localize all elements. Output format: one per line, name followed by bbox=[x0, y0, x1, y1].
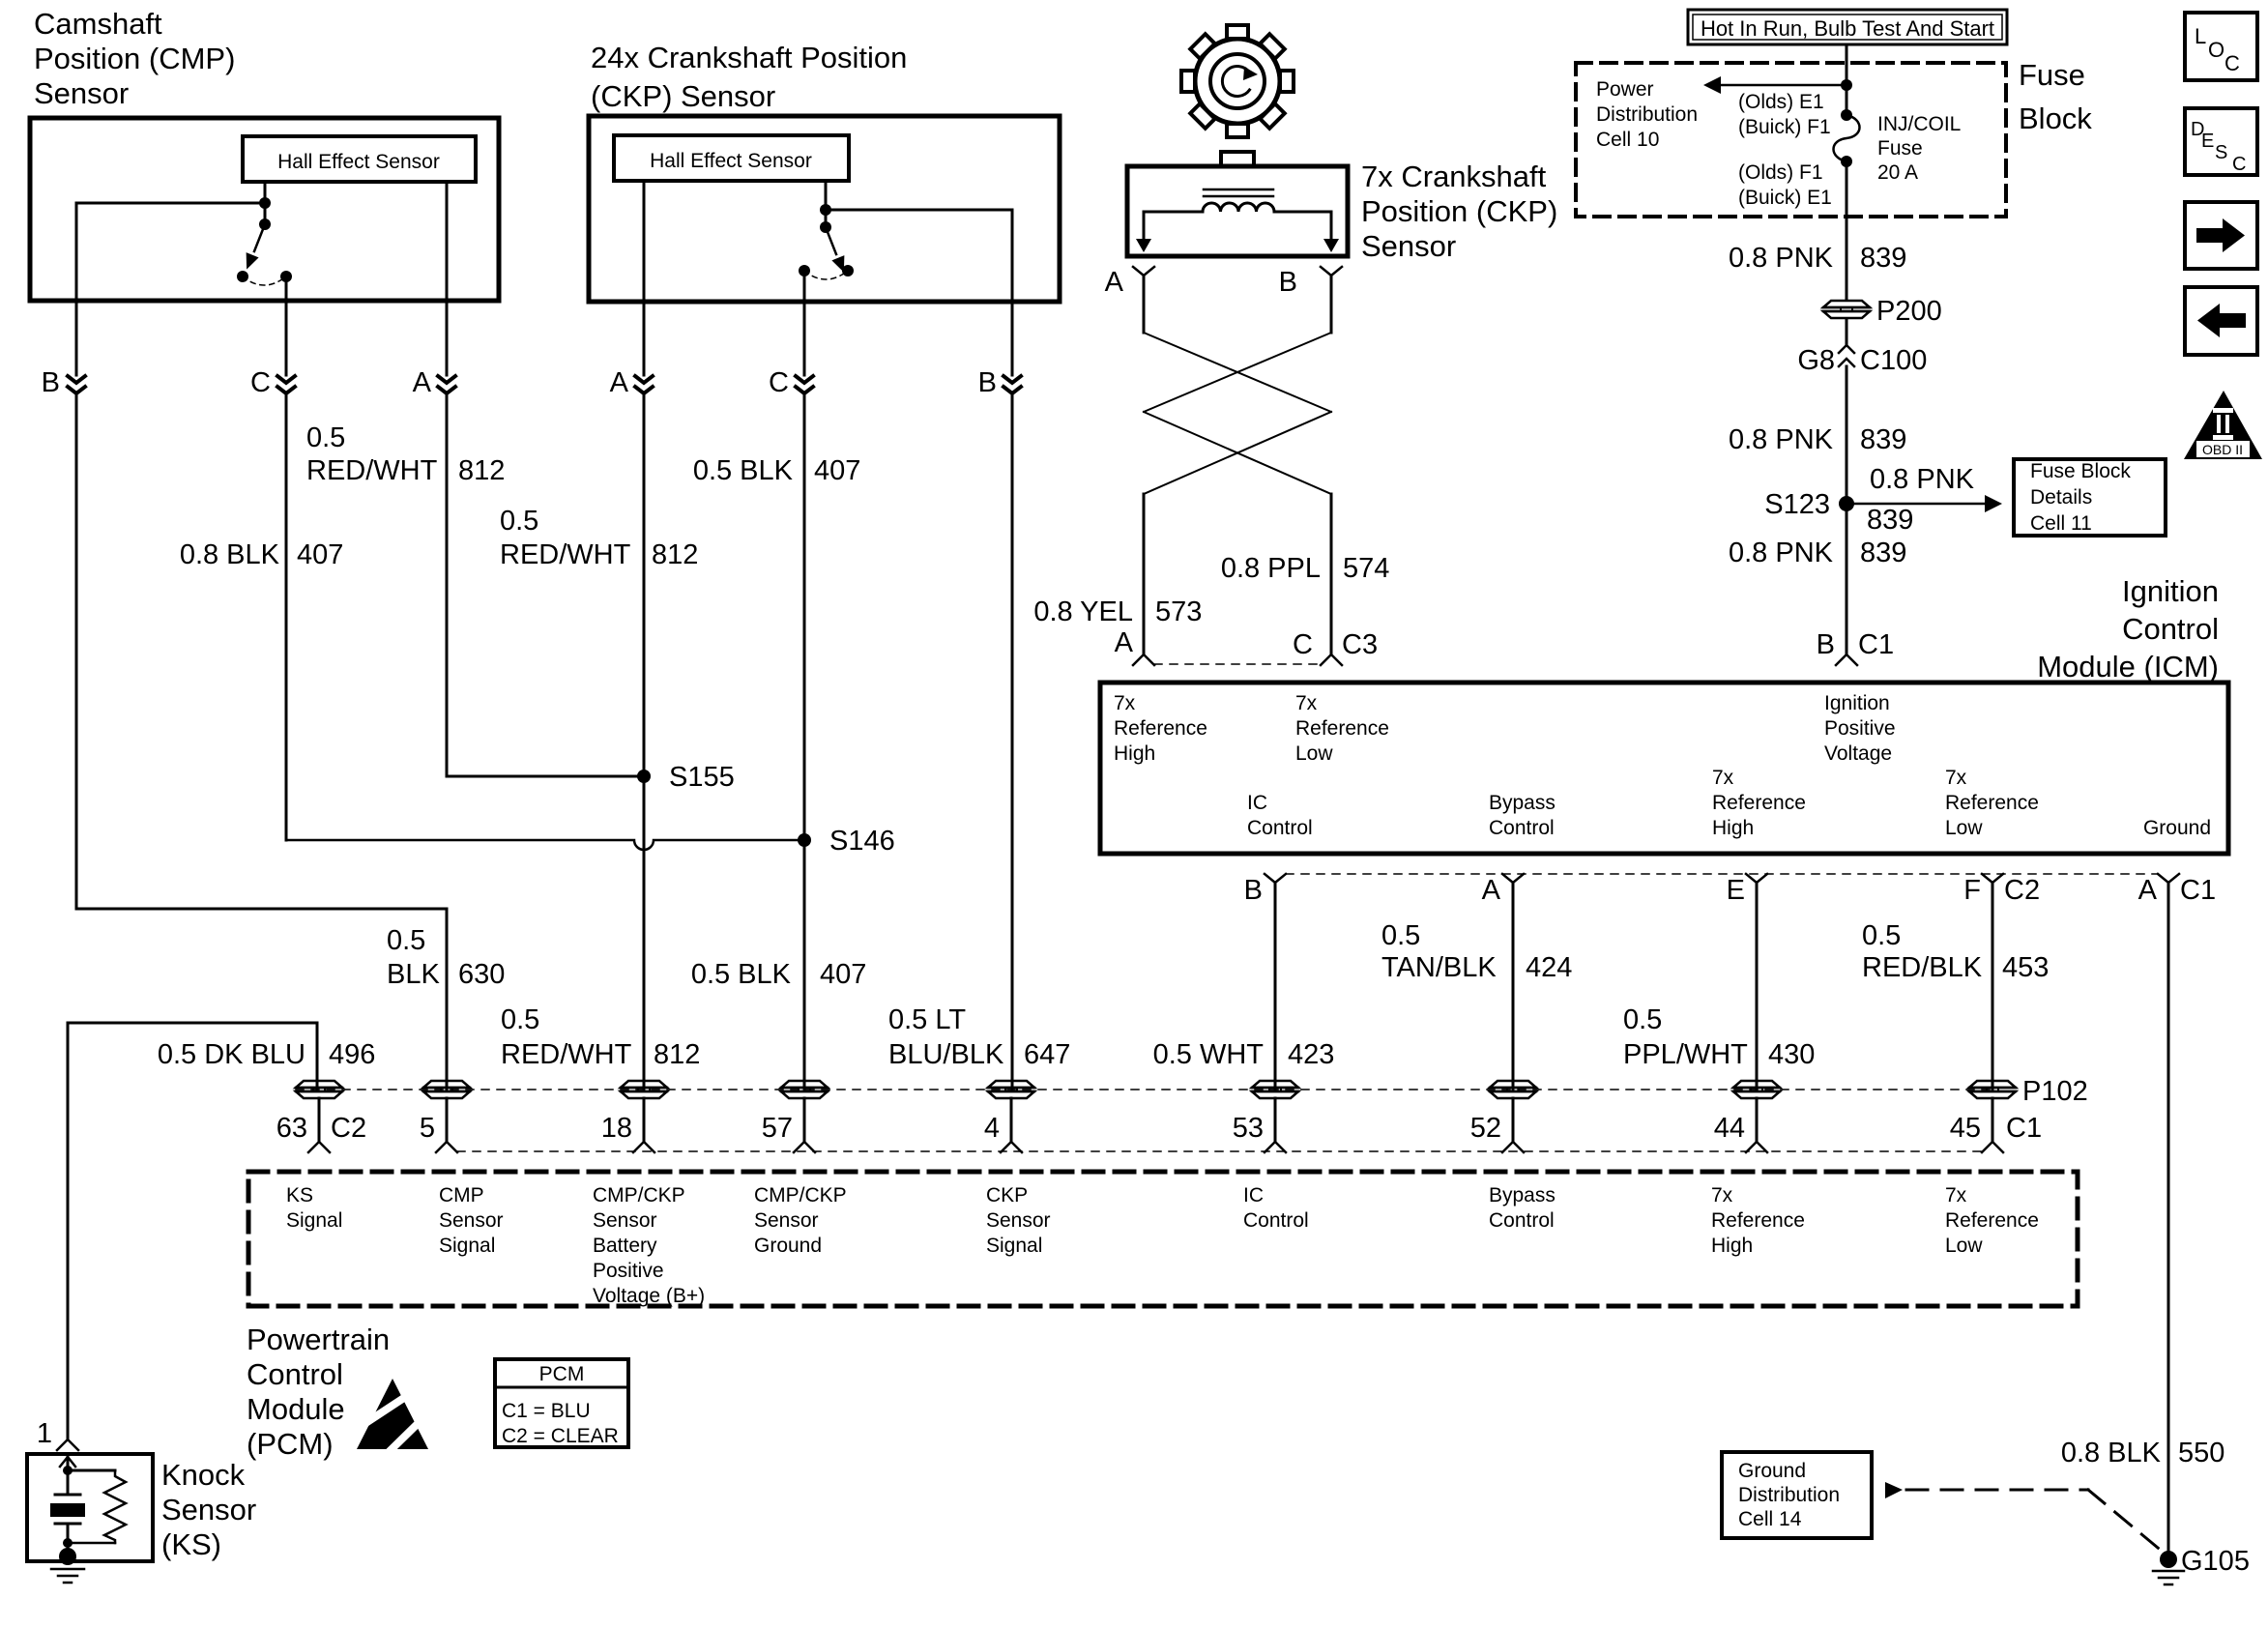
svg-text:Control: Control bbox=[1247, 817, 1313, 839]
svg-text:Details: Details bbox=[2030, 486, 2092, 509]
svg-text:C1: C1 bbox=[1858, 629, 1894, 660]
svg-text:407: 407 bbox=[814, 455, 860, 486]
svg-text:7x Crankshaft: 7x Crankshaft bbox=[1361, 160, 1547, 193]
svg-text:RED/WHT: RED/WHT bbox=[306, 455, 438, 486]
svg-text:Cell 14: Cell 14 bbox=[1738, 1508, 1802, 1530]
svg-text:CKP: CKP bbox=[986, 1184, 1028, 1206]
svg-text:TAN/BLK: TAN/BLK bbox=[1381, 952, 1497, 983]
svg-text:Voltage (B+): Voltage (B+) bbox=[593, 1285, 705, 1307]
svg-text:Low: Low bbox=[1295, 742, 1333, 765]
svg-text:630: 630 bbox=[458, 959, 505, 990]
svg-text:Control: Control bbox=[2122, 612, 2219, 646]
svg-text:0.5 LT: 0.5 LT bbox=[888, 1004, 966, 1035]
svg-text:0.5 WHT: 0.5 WHT bbox=[1153, 1039, 1265, 1070]
svg-text:0.5: 0.5 bbox=[306, 422, 345, 453]
svg-text:PPL/WHT: PPL/WHT bbox=[1623, 1039, 1748, 1070]
svg-text:INJ/COIL: INJ/COIL bbox=[1877, 113, 1961, 135]
svg-text:Control: Control bbox=[247, 1357, 343, 1391]
svg-text:0.5 DK BLU: 0.5 DK BLU bbox=[158, 1039, 305, 1070]
svg-text:550: 550 bbox=[2178, 1438, 2224, 1468]
svg-text:812: 812 bbox=[654, 1039, 700, 1070]
svg-text:453: 453 bbox=[2002, 952, 2049, 983]
svg-text:839: 839 bbox=[1867, 505, 1913, 536]
svg-text:C1: C1 bbox=[2006, 1113, 2042, 1144]
svg-text:Reference: Reference bbox=[1945, 792, 2039, 814]
svg-text:Reference: Reference bbox=[1711, 1209, 1805, 1232]
svg-text:Sensor: Sensor bbox=[161, 1493, 256, 1526]
svg-text:Ground: Ground bbox=[1738, 1460, 1806, 1482]
svg-text:S: S bbox=[2215, 142, 2227, 163]
svg-text:Reference: Reference bbox=[1114, 717, 1207, 740]
svg-text:Sensor: Sensor bbox=[1361, 229, 1456, 263]
svg-text:Distribution: Distribution bbox=[1596, 103, 1698, 126]
svg-text:839: 839 bbox=[1860, 243, 1906, 274]
svg-text:Positive: Positive bbox=[1824, 717, 1896, 740]
svg-text:BLK: BLK bbox=[387, 959, 440, 990]
svg-text:52: 52 bbox=[1470, 1113, 1501, 1144]
svg-text:F: F bbox=[1963, 875, 1981, 906]
svg-text:C: C bbox=[769, 367, 789, 398]
svg-text:(Buick) F1: (Buick) F1 bbox=[1738, 116, 1831, 138]
svg-text:L: L bbox=[2195, 24, 2206, 48]
svg-text:S155: S155 bbox=[669, 762, 735, 793]
svg-text:C2: C2 bbox=[2004, 875, 2040, 906]
svg-text:Control: Control bbox=[1489, 1209, 1555, 1232]
svg-text:Cell 10: Cell 10 bbox=[1596, 129, 1659, 151]
svg-text:Control: Control bbox=[1243, 1209, 1309, 1232]
svg-text:C2 = CLEAR: C2 = CLEAR bbox=[502, 1425, 619, 1447]
svg-text:Distribution: Distribution bbox=[1738, 1484, 1840, 1506]
svg-text:0.8 BLK: 0.8 BLK bbox=[2061, 1438, 2162, 1468]
svg-text:A: A bbox=[610, 367, 629, 398]
svg-text:Bypass: Bypass bbox=[1489, 792, 1556, 814]
svg-text:B: B bbox=[1817, 629, 1835, 660]
svg-text:0.8 PNK: 0.8 PNK bbox=[1729, 538, 1834, 568]
svg-text:0.5: 0.5 bbox=[501, 1004, 539, 1035]
svg-text:0.5: 0.5 bbox=[1623, 1004, 1662, 1035]
svg-text:496: 496 bbox=[329, 1039, 375, 1070]
svg-text:Power: Power bbox=[1596, 78, 1654, 101]
svg-text:407: 407 bbox=[820, 959, 866, 990]
svg-text:Hall Effect Sensor: Hall Effect Sensor bbox=[650, 150, 812, 172]
svg-text:A: A bbox=[1105, 267, 1124, 298]
svg-text:S123: S123 bbox=[1764, 489, 1830, 520]
svg-text:Sensor: Sensor bbox=[754, 1209, 819, 1232]
svg-text:812: 812 bbox=[652, 539, 698, 570]
svg-text:RED/WHT: RED/WHT bbox=[500, 539, 631, 570]
svg-text:IC: IC bbox=[1243, 1184, 1264, 1206]
svg-text:0.5: 0.5 bbox=[1862, 920, 1901, 951]
svg-text:Module: Module bbox=[247, 1392, 345, 1426]
svg-text:Hall Effect Sensor: Hall Effect Sensor bbox=[277, 151, 440, 173]
svg-text:High: High bbox=[1711, 1235, 1753, 1257]
svg-text:573: 573 bbox=[1155, 596, 1202, 627]
svg-text:KS: KS bbox=[286, 1184, 313, 1206]
svg-text:C2: C2 bbox=[331, 1113, 366, 1144]
svg-text:CMP/CKP: CMP/CKP bbox=[593, 1184, 685, 1206]
svg-text:B: B bbox=[1244, 875, 1263, 906]
svg-text:1: 1 bbox=[37, 1418, 52, 1449]
svg-text:Knock: Knock bbox=[161, 1458, 246, 1492]
svg-text:BLU/BLK: BLU/BLK bbox=[888, 1039, 1004, 1070]
svg-text:Camshaft: Camshaft bbox=[34, 7, 162, 41]
svg-text:C: C bbox=[1293, 629, 1313, 660]
svg-text:B: B bbox=[978, 367, 997, 398]
svg-text:B: B bbox=[42, 367, 60, 398]
svg-text:Control: Control bbox=[1489, 817, 1555, 839]
svg-text:RED/BLK: RED/BLK bbox=[1862, 952, 1983, 983]
svg-text:P200: P200 bbox=[1876, 296, 1942, 327]
svg-text:7x: 7x bbox=[1295, 692, 1318, 714]
svg-text:7x: 7x bbox=[1712, 767, 1734, 789]
svg-text:A: A bbox=[1115, 627, 1134, 658]
svg-text:Hot In Run, Bulb Test And Star: Hot In Run, Bulb Test And Start bbox=[1701, 16, 1994, 41]
svg-text:PCM: PCM bbox=[539, 1363, 585, 1385]
svg-text:High: High bbox=[1114, 742, 1155, 765]
svg-text:Module (ICM): Module (ICM) bbox=[2037, 650, 2219, 683]
svg-text:CMP/CKP: CMP/CKP bbox=[754, 1184, 847, 1206]
svg-text:Sensor: Sensor bbox=[439, 1209, 504, 1232]
svg-text:Reference: Reference bbox=[1712, 792, 1806, 814]
svg-text:(KS): (KS) bbox=[161, 1527, 221, 1561]
svg-text:0.5: 0.5 bbox=[500, 506, 538, 537]
svg-text:423: 423 bbox=[1288, 1039, 1334, 1070]
svg-text:P102: P102 bbox=[2022, 1076, 2088, 1107]
svg-text:Sensor: Sensor bbox=[986, 1209, 1051, 1232]
svg-text:18: 18 bbox=[601, 1113, 632, 1144]
svg-text:E: E bbox=[1727, 875, 1745, 906]
svg-text:Fuse: Fuse bbox=[2019, 58, 2085, 92]
svg-text:0.8 BLK: 0.8 BLK bbox=[180, 539, 280, 570]
svg-text:0.8 PPL: 0.8 PPL bbox=[1221, 553, 1321, 584]
svg-text:44: 44 bbox=[1714, 1113, 1745, 1144]
svg-text:0.8 YEL: 0.8 YEL bbox=[1033, 596, 1133, 627]
svg-text:Signal: Signal bbox=[439, 1235, 495, 1257]
svg-text:A: A bbox=[2138, 875, 2158, 906]
svg-text:63: 63 bbox=[276, 1113, 307, 1144]
svg-text:839: 839 bbox=[1860, 424, 1906, 455]
svg-text:0.8 PNK: 0.8 PNK bbox=[1729, 424, 1834, 455]
svg-text:53: 53 bbox=[1233, 1113, 1264, 1144]
svg-text:(Olds) F1: (Olds) F1 bbox=[1738, 161, 1823, 184]
svg-text:Position (CMP): Position (CMP) bbox=[34, 42, 235, 75]
svg-text:7x: 7x bbox=[1114, 692, 1136, 714]
svg-text:Bypass: Bypass bbox=[1489, 1184, 1556, 1206]
svg-text:G8: G8 bbox=[1797, 345, 1835, 376]
svg-text:Reference: Reference bbox=[1945, 1209, 2039, 1232]
svg-text:24x Crankshaft Position: 24x Crankshaft Position bbox=[591, 41, 907, 74]
svg-text:C1 = BLU: C1 = BLU bbox=[502, 1400, 591, 1422]
svg-text:20 A: 20 A bbox=[1877, 161, 1918, 184]
svg-text:(Olds) E1: (Olds) E1 bbox=[1738, 91, 1824, 113]
svg-text:C1: C1 bbox=[2180, 875, 2216, 906]
svg-text:Powertrain: Powertrain bbox=[247, 1323, 390, 1356]
svg-text:424: 424 bbox=[1526, 952, 1572, 983]
svg-text:S146: S146 bbox=[829, 826, 895, 857]
svg-text:RED/WHT: RED/WHT bbox=[501, 1039, 632, 1070]
svg-text:0.5: 0.5 bbox=[1381, 920, 1420, 951]
svg-text:C: C bbox=[250, 367, 271, 398]
svg-text:Fuse Block: Fuse Block bbox=[2030, 460, 2131, 482]
svg-text:OBD II: OBD II bbox=[2202, 442, 2243, 457]
svg-text:C3: C3 bbox=[1342, 629, 1378, 660]
svg-text:647: 647 bbox=[1024, 1039, 1070, 1070]
svg-text:407: 407 bbox=[297, 539, 343, 570]
svg-text:Signal: Signal bbox=[986, 1235, 1042, 1257]
svg-text:(CKP) Sensor: (CKP) Sensor bbox=[591, 79, 775, 113]
svg-text:CMP: CMP bbox=[439, 1184, 484, 1206]
svg-text:Ground: Ground bbox=[754, 1235, 822, 1257]
svg-text:839: 839 bbox=[1860, 538, 1906, 568]
svg-text:Low: Low bbox=[1945, 1235, 1983, 1257]
svg-text:0.8 PNK: 0.8 PNK bbox=[1729, 243, 1834, 274]
svg-text:Ignition: Ignition bbox=[2122, 574, 2219, 608]
svg-text:Signal: Signal bbox=[286, 1209, 342, 1232]
svg-text:High: High bbox=[1712, 817, 1754, 839]
svg-text:A: A bbox=[1482, 875, 1501, 906]
svg-text:C: C bbox=[2224, 51, 2240, 75]
svg-text:0.8 PNK: 0.8 PNK bbox=[1870, 464, 1975, 495]
svg-text:0.5 BLK: 0.5 BLK bbox=[691, 959, 792, 990]
svg-text:G105: G105 bbox=[2181, 1546, 2250, 1577]
svg-text:Voltage: Voltage bbox=[1824, 742, 1892, 765]
svg-text:7x: 7x bbox=[1945, 767, 1967, 789]
svg-text:C100: C100 bbox=[1860, 345, 1927, 376]
svg-text:57: 57 bbox=[762, 1113, 793, 1144]
svg-text:7x: 7x bbox=[1945, 1184, 1967, 1206]
svg-text:812: 812 bbox=[458, 455, 505, 486]
svg-text:0.5 BLK: 0.5 BLK bbox=[693, 455, 794, 486]
svg-text:B: B bbox=[1279, 267, 1297, 298]
svg-text:Sensor: Sensor bbox=[593, 1209, 657, 1232]
svg-text:45: 45 bbox=[1950, 1113, 1981, 1144]
svg-text:E: E bbox=[2201, 131, 2214, 152]
svg-text:(PCM): (PCM) bbox=[247, 1427, 334, 1461]
svg-text:574: 574 bbox=[1343, 553, 1389, 584]
svg-text:Low: Low bbox=[1945, 817, 1983, 839]
svg-text:C: C bbox=[2232, 154, 2246, 175]
svg-text:IC: IC bbox=[1247, 792, 1267, 814]
svg-text:Sensor: Sensor bbox=[34, 76, 129, 110]
svg-text:Position (CKP): Position (CKP) bbox=[1361, 194, 1557, 228]
svg-text:Cell 11: Cell 11 bbox=[2030, 512, 2092, 535]
svg-text:Fuse: Fuse bbox=[1877, 137, 1923, 160]
svg-text:Battery: Battery bbox=[593, 1235, 657, 1257]
svg-text:430: 430 bbox=[1768, 1039, 1815, 1070]
svg-text:O: O bbox=[2208, 38, 2224, 62]
svg-text:0.5: 0.5 bbox=[387, 925, 425, 956]
svg-text:A: A bbox=[413, 367, 432, 398]
svg-text:Block: Block bbox=[2019, 102, 2092, 135]
svg-text:Ground: Ground bbox=[2143, 817, 2211, 839]
svg-text:Ignition: Ignition bbox=[1824, 692, 1890, 714]
svg-text:Reference: Reference bbox=[1295, 717, 1389, 740]
svg-text:7x: 7x bbox=[1711, 1184, 1733, 1206]
svg-text:(Buick) E1: (Buick) E1 bbox=[1738, 187, 1832, 209]
svg-text:Positive: Positive bbox=[593, 1260, 664, 1282]
svg-text:4: 4 bbox=[984, 1113, 1000, 1144]
svg-text:5: 5 bbox=[420, 1113, 435, 1144]
